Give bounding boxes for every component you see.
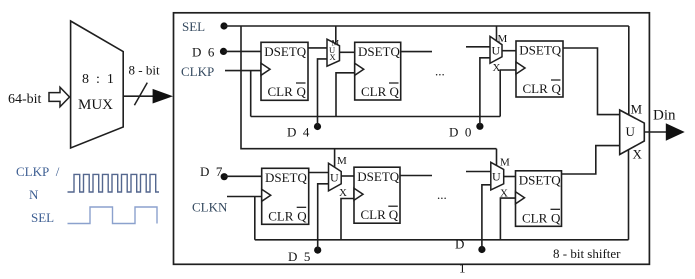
svg-text:U: U	[330, 171, 339, 185]
wire 8-bit bus from U0	[123, 95, 153, 97]
svg-text:D 5: D 5	[288, 249, 310, 264]
svg-text:X: X	[493, 62, 501, 74]
flip-flop FF4	[262, 168, 309, 224]
svg-text:DSETQ: DSETQ	[357, 169, 400, 184]
junction SEL terminal dot	[220, 22, 227, 29]
wire FF2 Q dangling	[401, 51, 432, 53]
svg-text:D 4: D 4	[287, 125, 310, 140]
wire MUX4 out to FF6 D	[504, 176, 516, 178]
svg-text:D 7: D 7	[200, 164, 223, 179]
svg-text:8 - bit shifter: 8 - bit shifter	[553, 246, 621, 261]
svg-text:U: U	[626, 124, 636, 139]
svg-text:U: U	[492, 44, 501, 58]
svg-text:X: X	[633, 147, 643, 162]
svg-text:CLKP: CLKP	[181, 64, 214, 79]
svg-text:CLR: CLR	[268, 208, 294, 223]
flip-flop FF1	[261, 42, 308, 100]
svg-text:U: U	[492, 170, 501, 184]
svg-text:CLR: CLR	[361, 84, 387, 99]
wire SEL drop to MUX1 select	[335, 26, 337, 44]
flip-flop FF6	[516, 171, 562, 227]
svg-text:Q: Q	[297, 208, 307, 223]
junction D terminal dot	[478, 246, 485, 253]
svg-text:Q: Q	[389, 207, 399, 222]
wire SEL drop to bottom rail	[241, 26, 497, 149]
svg-text:8 - bit: 8 - bit	[129, 63, 160, 78]
wire D up to MUX4 input	[482, 185, 491, 250]
wire output MUX to Din	[644, 131, 666, 133]
svg-text:DSETQ: DSETQ	[265, 170, 308, 185]
wire MUX2 out to FF3 D	[502, 50, 516, 52]
svg-text:SEL: SEL	[31, 210, 54, 225]
wire CLKN to FF4 clock	[227, 196, 262, 198]
svg-text:M: M	[337, 155, 347, 167]
svg-text:8 : 1: 8 : 1	[82, 72, 114, 87]
wire CLKN rail	[255, 239, 629, 241]
svg-text:...: ...	[437, 187, 447, 202]
junction D7 terminal dot	[221, 173, 228, 180]
wire CLKP rail	[251, 116, 501, 118]
wire CLKN rail up to FF6 clock	[500, 198, 515, 240]
wire MUX3 out to FF5 D	[341, 175, 354, 177]
svg-text:Q: Q	[552, 81, 562, 96]
svg-text:DSETQ: DSETQ	[264, 44, 307, 59]
CLKP/N clock waveform	[68, 174, 160, 192]
wire FF1 Q to MUX1	[308, 47, 327, 49]
svg-text:M: M	[500, 157, 510, 169]
svg-text:DSETQ: DSETQ	[358, 44, 401, 59]
svg-text:Q: Q	[390, 84, 400, 99]
wire D7 to FF4 D	[224, 175, 262, 177]
junction D0 terminal dot	[476, 123, 483, 130]
wire SEL drop to MUX2 select	[496, 26, 498, 41]
svg-text:MUX: MUX	[78, 97, 113, 113]
svg-text:Din: Din	[653, 108, 676, 124]
wire into MUX2	[466, 46, 490, 48]
Din arrowhead	[666, 123, 685, 140]
wire D0 up to MUX2 input	[480, 58, 490, 127]
flip-flop FF5	[354, 167, 400, 223]
wire CLKP stub down	[250, 71, 252, 117]
svg-text:X: X	[339, 187, 347, 199]
svg-text:N: N	[29, 187, 39, 202]
mux MUX2	[490, 33, 508, 74]
svg-text:1: 1	[459, 261, 466, 276]
wire CLKN stub down	[254, 197, 256, 240]
mux U7 output 2:1 mux	[620, 102, 645, 162]
wire FF4 Q to MUX3	[309, 172, 329, 174]
wire CLKP rail up to FF3 clock	[500, 70, 516, 117]
svg-text:Q: Q	[297, 84, 307, 99]
wire SEL drop to MUX4 select	[496, 149, 498, 166]
svg-text:D 6: D 6	[192, 45, 215, 60]
64-bit block arrow	[49, 87, 70, 107]
svg-text:X: X	[330, 52, 336, 62]
svg-text:...: ...	[435, 64, 445, 79]
svg-text:CLR: CLR	[523, 81, 549, 96]
SEL waveform	[68, 207, 158, 224]
svg-text:CLR: CLR	[361, 207, 387, 222]
svg-text:Q: Q	[551, 210, 561, 225]
mux MUX4	[491, 157, 510, 200]
flip-flop FF2	[355, 42, 401, 100]
arrowhead into shifter box	[153, 89, 173, 104]
svg-text:CLR: CLR	[268, 84, 294, 99]
mux U0 8:1 MUX trapezoid	[71, 21, 124, 148]
svg-text:X: X	[500, 188, 508, 200]
svg-text:M: M	[631, 102, 643, 117]
wire D4 up to MUX1 input	[318, 59, 328, 127]
svg-text:CLKP /: CLKP /	[16, 164, 60, 179]
wire SEL drop to output MUX select	[628, 26, 630, 115]
wire into MUX4	[466, 171, 491, 173]
svg-text:CLKN: CLKN	[192, 200, 228, 215]
wire SEL drop to MUX3 select	[334, 149, 336, 168]
svg-text:DSETQ: DSETQ	[519, 43, 562, 58]
wire MUX1 out to FF2 D	[340, 51, 355, 53]
8-bit shifter outer box	[174, 13, 650, 264]
junction D4 terminal dot	[314, 123, 321, 130]
svg-text:CLR: CLR	[522, 210, 548, 225]
svg-text:D: D	[455, 237, 464, 252]
wire CLKP rail up to FF2 clock	[336, 73, 355, 117]
wire FF6 Q to output MUX bottom input	[562, 146, 620, 174]
svg-text:DSETQ: DSETQ	[519, 173, 562, 188]
wire FF5 Q dangling	[400, 175, 432, 177]
mux MUX3	[329, 155, 348, 199]
wire FF3 Q to output MUX top input	[563, 48, 620, 115]
svg-text:64-bit: 64-bit	[8, 92, 42, 107]
wire D5 up to MUX3 input	[318, 184, 329, 250]
svg-text:SEL: SEL	[182, 19, 205, 34]
wire CLKP to FF1 clock	[225, 70, 261, 72]
junction D6 terminal dot	[220, 48, 227, 55]
wire CLKN rail up to output MUX X select	[628, 150, 630, 240]
mux MUX1	[327, 38, 340, 67]
flip-flop FF3	[516, 41, 563, 97]
wire SEL top rail	[224, 25, 629, 27]
wire CLKN rail up to FF5 clock	[341, 199, 354, 240]
wire D6 to FF1 D	[224, 50, 262, 52]
junction D5 terminal dot	[314, 247, 321, 254]
bus slash mark	[134, 83, 147, 106]
svg-text:D 0: D 0	[449, 125, 471, 140]
